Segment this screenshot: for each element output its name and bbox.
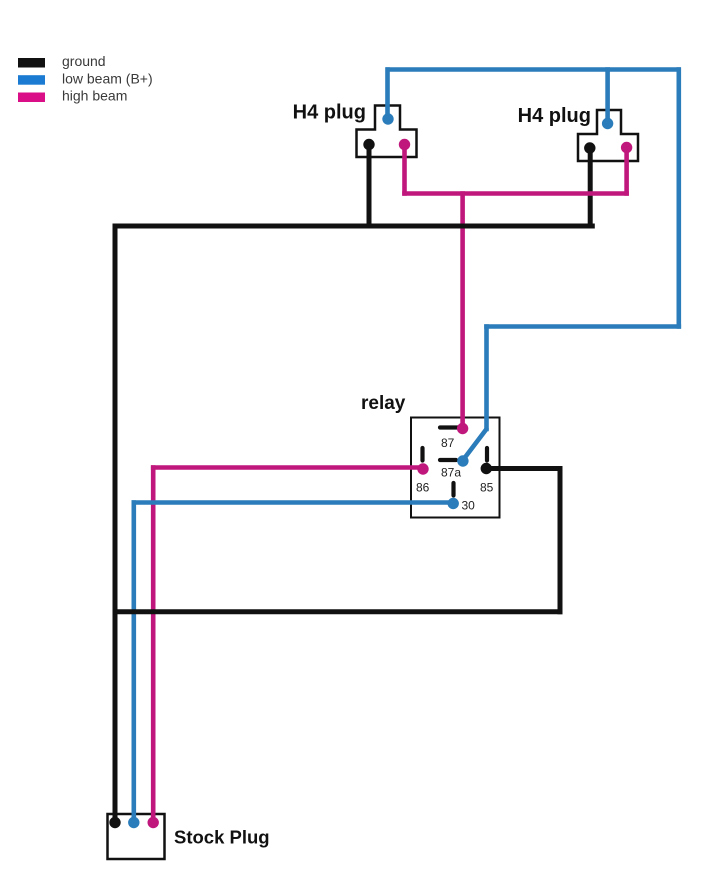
wire: blue low-beam top horizontal bus (386, 67, 681, 72)
pin: Stock Plug low beam node (blue) (128, 817, 139, 828)
wire: magenta horizontal bus between plugs (405, 191, 627, 196)
wire: blue drop from top bus to left H4 low-beam pin (385, 70, 390, 120)
connector: H4 plug (right) outline (578, 110, 638, 161)
relay pin 87 node (magenta) (457, 423, 468, 434)
svg-text:87a: 87a (441, 466, 461, 480)
relay pin 86 contact bar (420, 448, 424, 461)
wire: black horizontal feed from relay pin 85 (486, 466, 560, 471)
wire: black drop from left H4 ground pin (367, 145, 372, 227)
pin: Stock Plug ground node (black) (109, 817, 120, 828)
connector: Stock Plug outline (108, 814, 165, 859)
wire: black top ground bus (115, 224, 592, 229)
relay pin 87 contact bar (440, 425, 459, 429)
component: relay body (411, 418, 500, 518)
pin: right H4 low beam node (blue) (602, 118, 613, 129)
wire: blue horizontal feed to relay pin 30 (134, 500, 453, 505)
svg-text:87: 87 (441, 436, 455, 450)
wire: magenta drop from left H4 high-beam pin (402, 145, 407, 194)
wire: magenta vertical down to Stock Plug (151, 468, 156, 823)
legend swatch: low beam (blue) (18, 75, 45, 85)
pin: left H4 low beam node (blue) (382, 113, 393, 124)
pin: Stock Plug high beam node (magenta) (148, 817, 159, 828)
svg-text:ground: ground (62, 53, 106, 69)
svg-text:H4 plug: H4 plug (518, 105, 591, 127)
wire: blue right-side vertical (676, 70, 681, 327)
svg-text:85: 85 (480, 481, 494, 495)
svg-text:high beam: high beam (62, 88, 127, 104)
relay pin 30 node (blue) (448, 498, 459, 509)
svg-text:30: 30 (462, 499, 476, 513)
svg-text:Stock Plug: Stock Plug (174, 827, 270, 848)
wire: blue drop from top bus to right H4 low-beam pin (605, 70, 610, 124)
wire: blue horizontal toward relay (487, 324, 679, 329)
wire: black bottom horizontal bus (115, 609, 560, 614)
connector: H4 plug (left) outline (357, 106, 417, 158)
wire: black right vertical up to relay 85 feed (558, 469, 563, 612)
wire: black drop from right H4 ground pin (588, 148, 593, 226)
relay pin 85 contact bar (485, 448, 489, 461)
pin: left H4 high beam node (magenta) (399, 139, 410, 150)
pin: right H4 ground node (black) (584, 142, 595, 153)
legend swatch: ground (black) (18, 58, 45, 68)
relay pin 30 contact bar (451, 483, 455, 496)
relay switch arm (blue diagonal to 87a) (463, 429, 487, 460)
wire: magenta drop from right H4 high-beam pin (624, 148, 629, 194)
wire: magenta horizontal feed to relay pin 86 (153, 465, 423, 470)
relay pin 85 node (black) (481, 463, 492, 474)
relay pin 86 node (magenta) (417, 463, 428, 474)
svg-text:H4 plug: H4 plug (293, 102, 366, 124)
svg-text:relay: relay (361, 393, 406, 414)
pin: right H4 high beam node (magenta) (621, 142, 632, 153)
wire: blue vertical down to Stock Plug (132, 503, 137, 823)
legend swatch: high beam (magenta) (18, 93, 45, 103)
pin: left H4 ground node (black) (363, 139, 374, 150)
wire: blue vertical into relay top (484, 327, 489, 430)
relay pin 87a node (blue) (457, 455, 468, 466)
svg-text:low beam (B+): low beam (B+) (62, 70, 153, 86)
relay pin 87a contact bar (440, 458, 456, 462)
svg-text:86: 86 (416, 481, 430, 495)
wire: black left vertical down to Stock Plug (113, 226, 118, 822)
wire: magenta vertical down to relay pin 87 (460, 194, 465, 429)
